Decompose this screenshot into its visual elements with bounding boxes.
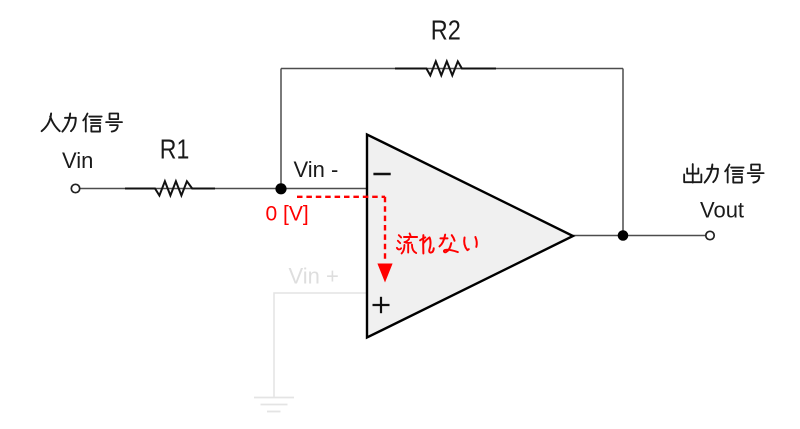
svg-text:0 [V]: 0 [V] [266, 203, 309, 226]
red arrowhead [377, 264, 392, 283]
wire: node to op-amp inverting input [281, 188, 367, 190]
op-amp U1 [367, 135, 573, 338]
wire: non-inverting input to ground (light) [274, 293, 366, 398]
label 出力信号 [684, 164, 763, 182]
node A (inverting input junction) [275, 183, 286, 194]
svg-text:Vin: Vin [62, 148, 93, 173]
wire: input terminal to R1 and node [80, 188, 281, 190]
svg-text:Vout: Vout [700, 198, 744, 223]
op-amp plus pin mark [373, 297, 390, 313]
svg-text:Vin +: Vin + [289, 264, 339, 289]
output terminal [706, 231, 714, 239]
label 入力信号 [42, 114, 122, 132]
wire: node up to feedback [280, 69, 282, 189]
ground [254, 398, 294, 412]
node B (output junction) [618, 230, 629, 241]
input terminal [71, 184, 79, 192]
svg-text:Vin -: Vin - [294, 157, 339, 182]
wire: feedback top run [281, 68, 623, 70]
label 流れない (red) [397, 233, 477, 253]
svg-text:R1: R1 [160, 134, 190, 165]
wire: op-amp output to terminal [573, 235, 706, 237]
red dashed virtual-short annotation [297, 197, 385, 262]
resistor R2 [395, 61, 496, 75]
op-amp minus pin mark [373, 173, 390, 176]
label Vin + (light) [289, 264, 339, 289]
resistor R1 [125, 181, 215, 195]
svg-text:R2: R2 [431, 15, 461, 46]
wire: feedback down to output node [622, 69, 624, 236]
